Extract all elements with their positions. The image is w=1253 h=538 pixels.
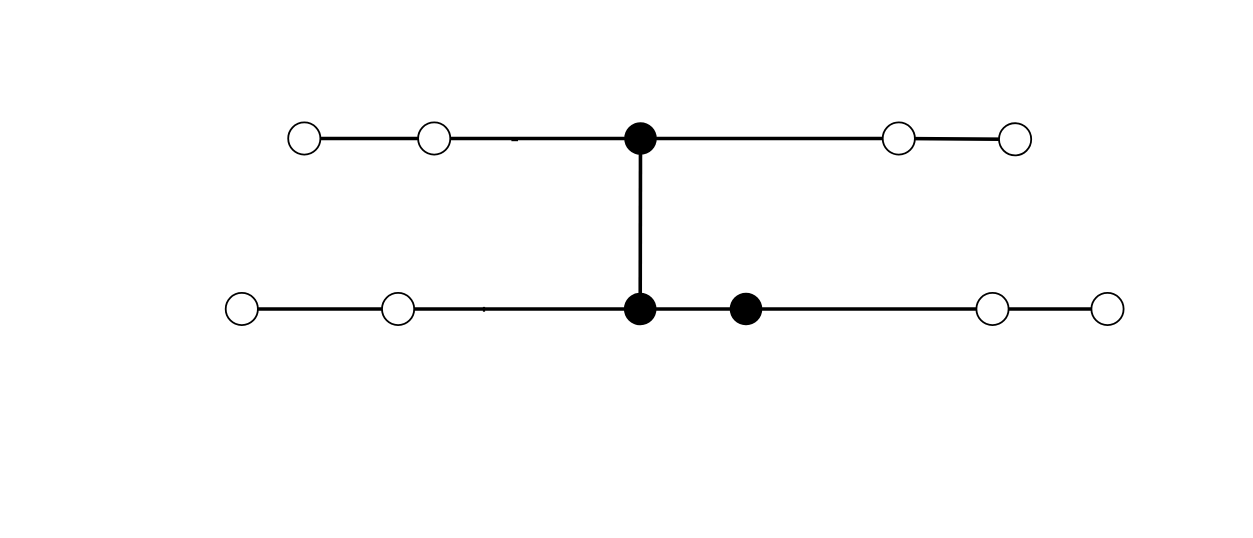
node B1 open bbox=[226, 293, 258, 325]
wire top edge T3-T4 bbox=[641, 137, 899, 141]
wire bottom edge B3-B4 bbox=[640, 307, 746, 311]
node T2 open bbox=[418, 122, 450, 154]
wire bottom edge B2-B3 bbox=[398, 307, 640, 311]
node B3 filled bbox=[624, 293, 657, 326]
node B5 open bbox=[976, 293, 1008, 325]
node T1 open bbox=[288, 122, 320, 154]
wire bottom edge B5-B6 bbox=[993, 307, 1108, 311]
node B6 open bbox=[1091, 293, 1123, 325]
wire small overlap bump on bottom edge bbox=[483, 307, 485, 312]
node T4 open bbox=[883, 122, 915, 154]
wire top edge T4-T5 bbox=[899, 137, 1015, 141]
node B2 open bbox=[382, 293, 414, 325]
node T5 open bbox=[999, 123, 1031, 155]
wire bottom edge B4-B5 bbox=[746, 307, 993, 311]
wire small overlap bump on top edge bbox=[511, 140, 518, 142]
node T3 filled bbox=[624, 122, 657, 155]
wire vertical edge T3-B3 bbox=[638, 139, 642, 310]
wire bottom edge B1-B2 bbox=[242, 307, 398, 311]
wire top edge T1-T2 bbox=[304, 137, 434, 141]
wire top edge T2-T3 bbox=[434, 137, 640, 141]
node B4 filled bbox=[730, 293, 763, 326]
